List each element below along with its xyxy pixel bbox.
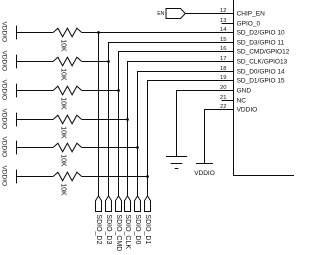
pin 13 stub (GPIO_0, unconnected) (222, 23, 234, 25)
label VDDIO row2 (1, 51, 8, 72)
svg-text:EN: EN (157, 11, 164, 17)
pin number 15 (220, 37, 226, 43)
wire net EN: flag tip to chip pin 12 (185, 13, 233, 15)
power symbol VDDIO row3 bar (16, 84, 18, 98)
label VDDIO bottom power (194, 170, 215, 177)
pin number 14 (220, 27, 227, 33)
svg-text:SDIO_D1: SDIO_D1 (144, 214, 151, 244)
wire chip pin 17 to bus SDIO_CLK (corner down to flag) (128, 62, 234, 196)
resistor R2 10K (53, 57, 82, 66)
pin number 16 (220, 46, 226, 52)
power symbol VDDIO bottom bar (196, 163, 213, 165)
net label SDIO_CLK (124, 214, 131, 249)
net label SDIO_D3 (105, 214, 112, 244)
svg-text:22: 22 (220, 104, 226, 110)
junction node SDIO_CMD (117, 89, 120, 92)
wire net SDIO_CMD: resistor to vertical bus (82, 90, 119, 92)
wire net SDIO_CLK: VDDIO bar to resistor R4 (17, 119, 54, 121)
svg-text:10K: 10K (59, 97, 66, 110)
svg-text:SD_D0/GPIO 14: SD_D0/GPIO 14 (237, 69, 285, 76)
pin label SD_D2/GPIO 10 (237, 30, 285, 37)
value label 10K of R4 (59, 126, 66, 139)
pin number 12 (220, 8, 226, 14)
wire net SDIO_D0: VDDIO bar to resistor R5 (17, 147, 54, 149)
wire chip pin 15 to bus SDIO_D3 (corner down to flag) (109, 43, 234, 196)
wire net SDIO_CLK: resistor to vertical bus (82, 119, 128, 121)
wire net SDIO_CMD: VDDIO bar to resistor R3 (17, 90, 54, 92)
pin label SD_D3/GPIO 11 (237, 40, 285, 47)
power symbol VDDIO row6 bar (16, 170, 18, 184)
pin label CHIP_EN (237, 11, 265, 18)
svg-text:SD_D3/GPIO 11: SD_D3/GPIO 11 (237, 40, 285, 47)
pin label SD_D0/GPIO 14 (237, 69, 285, 76)
wire chip pin 20 to ground (177, 91, 234, 157)
pin 21 stub (NC, unconnected) (222, 100, 234, 102)
net label SDIO_D0 (134, 214, 141, 244)
net label SDIO_D2 (95, 214, 102, 244)
pin label SD_CLK/GPIO13 (237, 59, 288, 66)
pin number 20 (220, 85, 226, 91)
wire net SDIO_D0: resistor to vertical bus (82, 147, 138, 149)
svg-text:15: 15 (220, 37, 226, 43)
value label 10K of R2 (59, 68, 66, 81)
net flag EN (pentagon) (166, 9, 185, 19)
power symbol VDDIO row4 bar (16, 113, 18, 127)
pin label GPIO_0 (237, 21, 261, 28)
wire chip pin 18 to bus SDIO_D0 (corner down to flag) (138, 72, 234, 196)
svg-text:14: 14 (220, 27, 227, 33)
wire net SDIO_D2: resistor to chip pin 14 (through junction) (82, 32, 234, 34)
svg-text:SD_CLK/GPIO13: SD_CLK/GPIO13 (237, 59, 288, 66)
svg-text:18: 18 (220, 66, 226, 72)
svg-text:VDDIO: VDDIO (1, 80, 8, 101)
label VDDIO row4 (1, 109, 8, 130)
svg-text:SDIO_CLK: SDIO_CLK (124, 214, 131, 249)
pin label SD_D1/GPIO 15 (237, 78, 285, 85)
net flag SDIO_D2 (pentagon) (96, 196, 102, 212)
junction node SDIO_D2 (97, 31, 100, 34)
power symbol VDDIO row5 bar (16, 141, 18, 155)
svg-text:SD_CMD/GPIO12: SD_CMD/GPIO12 (237, 49, 290, 56)
resistor R5 10K (53, 143, 82, 152)
svg-text:VDDIO: VDDIO (1, 109, 8, 130)
svg-text:CHIP_EN: CHIP_EN (237, 11, 265, 18)
wire net SDIO_D1: resistor to vertical bus (82, 176, 148, 178)
svg-text:10K: 10K (59, 183, 66, 196)
wire chip pin 22 to VDDIO power symbol (205, 110, 234, 164)
svg-text:VDDIO: VDDIO (237, 107, 258, 114)
svg-text:10K: 10K (59, 154, 66, 167)
label VDDIO row1 (1, 22, 8, 43)
wire net SDIO_D3: resistor to vertical bus (82, 61, 109, 63)
svg-text:VDDIO: VDDIO (1, 137, 8, 158)
svg-text:17: 17 (220, 56, 226, 62)
wire net SDIO_D1: VDDIO bar to resistor R6 (17, 176, 54, 178)
svg-text:VDDIO: VDDIO (1, 22, 8, 43)
power symbol VDDIO row2 bar (16, 55, 18, 69)
net flag SDIO_D3 (pentagon) (106, 196, 112, 212)
svg-text:13: 13 (220, 18, 226, 24)
value label 10K of R3 (59, 97, 66, 110)
wire chip pin 16 to bus SDIO_CMD (corner down to flag) (119, 52, 234, 196)
value label 10K of R1 (59, 39, 66, 52)
svg-text:19: 19 (220, 75, 226, 81)
net flag SDIO_CLK (pentagon) (125, 196, 131, 212)
resistor R1 10K (53, 28, 82, 37)
label VDDIO row3 (1, 80, 8, 101)
resistor R6 10K (53, 172, 82, 181)
wire net SDIO_D3: VDDIO bar to resistor R2 (17, 61, 54, 63)
net flag SDIO_CMD (pentagon) (116, 196, 122, 212)
svg-text:21: 21 (220, 95, 226, 101)
net flag SDIO_D1 (pentagon) (145, 196, 151, 212)
junction node SDIO_D3 (107, 60, 110, 63)
value label 10K of R6 (59, 183, 66, 196)
svg-text:SDIO_D2: SDIO_D2 (95, 214, 102, 244)
net flag SDIO_D0 (pentagon) (135, 196, 141, 212)
svg-text:10K: 10K (59, 68, 66, 81)
pin label VDDIO (237, 107, 258, 114)
resistor R3 10K (53, 86, 82, 95)
svg-text:12: 12 (220, 8, 226, 14)
svg-text:VDDIO: VDDIO (194, 170, 215, 177)
svg-text:SD_D2/GPIO 10: SD_D2/GPIO 10 (237, 30, 285, 37)
label VDDIO row6 (1, 166, 8, 187)
wire bus SDIO_D2 vertical (junction to flag) (98, 33, 100, 196)
pin number 17 (220, 56, 226, 62)
svg-text:20: 20 (220, 85, 226, 91)
value label 10K of R5 (59, 154, 66, 167)
svg-text:SDIO_CMD: SDIO_CMD (115, 214, 122, 251)
net label SDIO_D1 (144, 214, 151, 244)
junction node SDIO_D1 (146, 175, 149, 178)
wire net SDIO_D2: VDDIO bar to resistor R1 (17, 32, 54, 34)
svg-text:SD_D1/GPIO 15: SD_D1/GPIO 15 (237, 78, 285, 85)
pin number 18 (220, 66, 226, 72)
svg-text:VDDIO: VDDIO (1, 51, 8, 72)
svg-text:10K: 10K (59, 39, 66, 52)
resistor R4 10K (53, 115, 82, 124)
svg-text:VDDIO: VDDIO (1, 166, 8, 187)
pin number 22 (220, 104, 226, 110)
svg-text:16: 16 (220, 46, 226, 52)
junction node SDIO_D0 (136, 146, 139, 149)
wire chip pin 19 to bus SDIO_D1 (corner down to flag) (148, 81, 234, 196)
label VDDIO row5 (1, 137, 8, 158)
svg-text:NC: NC (237, 98, 247, 105)
net label SDIO_CMD (115, 214, 122, 251)
label EN (157, 11, 164, 17)
pin number 21 (220, 95, 226, 101)
chip U1 body outline (left edge and bottom edge) (234, 0, 295, 176)
pin label SD_CMD/GPIO12 (237, 49, 290, 56)
pin label NC (237, 98, 247, 105)
power symbol VDDIO row1 bar (16, 26, 18, 40)
pin number 19 (220, 75, 226, 81)
pin label GND (237, 88, 252, 95)
svg-text:SDIO_D0: SDIO_D0 (134, 214, 141, 244)
svg-text:GPIO_0: GPIO_0 (237, 21, 261, 28)
junction node SDIO_CLK (126, 118, 129, 121)
svg-text:GND: GND (237, 88, 252, 95)
svg-text:10K: 10K (59, 126, 66, 139)
pin number 13 (220, 18, 226, 24)
ground symbol (166, 157, 187, 169)
svg-text:SDIO_D3: SDIO_D3 (105, 214, 112, 244)
